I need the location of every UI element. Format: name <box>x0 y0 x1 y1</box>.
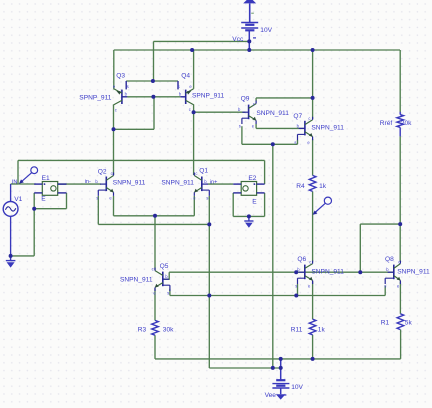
wire Vcc rail y50 <box>114 49 400 51</box>
pin labels Q7 <box>294 116 310 145</box>
wire E2 loop left drop <box>232 193 234 217</box>
svg-text:s: s <box>127 84 129 89</box>
label 5k (R1) <box>405 319 413 326</box>
wire Q1Q2 substrate bus y224 <box>98 223 209 225</box>
label Vcc <box>232 36 244 43</box>
label SPNP_911 (Q3) <box>79 94 111 101</box>
svg-text:Q4: Q4 <box>181 73 190 80</box>
svg-text:Q8: Q8 <box>385 256 394 263</box>
transistor Q9 SNPN_911 <box>242 101 256 124</box>
svg-text:s: s <box>96 196 98 201</box>
svg-text:in+: in+ <box>210 180 218 186</box>
svg-text:SNPN_911: SNPN_911 <box>120 277 153 284</box>
source V1 sine <box>3 202 18 217</box>
svg-text:Q2: Q2 <box>98 168 107 175</box>
svg-text:10V: 10V <box>260 27 272 34</box>
label R3 <box>138 327 147 334</box>
svg-text:Q3: Q3 <box>116 73 125 80</box>
label 30k (R3) <box>163 327 174 334</box>
svg-text:E1: E1 <box>42 175 50 182</box>
wire R11 bottom lead <box>312 335 314 359</box>
label 1k (R4) <box>319 183 327 190</box>
label SPNP_911 (Q4) <box>192 92 224 99</box>
wire IN node to E1 <box>18 183 36 185</box>
label E1 <box>42 175 50 182</box>
transistor Q6 SNPN_911 <box>298 261 313 284</box>
resistor R1 5k <box>397 314 404 330</box>
svg-text:Q1: Q1 <box>199 167 208 174</box>
svg-text:Vcc: Vcc <box>232 36 244 43</box>
wire Q5 emitter to R3 <box>154 288 156 320</box>
pin labels Q8 <box>384 259 400 288</box>
wire IN node to V1 <box>11 183 18 185</box>
svg-text:R1: R1 <box>381 319 390 326</box>
pin labels Q6 <box>295 259 311 288</box>
pin labels Q1 <box>193 171 208 200</box>
label Q2 <box>98 168 107 175</box>
battery Vee 10V <box>272 359 289 395</box>
resistor Rref 20k <box>397 112 404 137</box>
label Q5 <box>160 263 169 270</box>
battery Vcc 10V <box>241 23 258 51</box>
wire E2 sense riser x265 <box>264 160 266 184</box>
wire V1 bottom lead <box>10 216 12 256</box>
label SNPN_911 (Q8) <box>397 269 430 276</box>
wire E1 out- drop x66 <box>66 193 68 209</box>
resistor R4 1k <box>309 175 316 191</box>
wire Q9 emitter to Q7 base y128 <box>256 127 305 129</box>
wire feedback left drop to IN <box>17 160 19 184</box>
wire R3 bottom lead <box>154 335 156 359</box>
ground under E2 <box>244 216 253 227</box>
wire V1 top lead <box>10 184 12 202</box>
label 1k (R11) <box>318 326 326 333</box>
wire Q9 emitter drop <box>255 124 257 128</box>
dependent source E2 (VCVS mirrored) <box>233 182 264 196</box>
label E (E1) <box>41 196 46 203</box>
svg-text:SNPN_911: SNPN_911 <box>311 125 344 132</box>
wire substrate x209 down <box>208 196 210 368</box>
wire vertical x153 Vcc-to-substrate-rail <box>153 41 155 81</box>
wire bias riser x360 <box>359 224 361 272</box>
label Q6 <box>297 256 306 263</box>
wire Q8 emitter to R1 <box>399 281 401 314</box>
transistor Q8 SNPN_911 <box>385 261 400 284</box>
svg-text:SPNP_911: SPNP_911 <box>192 92 224 99</box>
transistor Q5 SNPN_911 <box>155 268 170 291</box>
svg-text:Vee: Vee <box>265 392 277 399</box>
label IN <box>12 180 18 186</box>
wire substrate rail Q3-Q4 y81 <box>126 80 178 82</box>
wire Q3 collector to Q2 collector x113 <box>113 104 115 175</box>
svg-text:Q7: Q7 <box>293 113 302 120</box>
label 10V (Vcc) <box>260 27 272 34</box>
wire E2 loop right drop <box>264 193 266 217</box>
wire Q6 substrate drop <box>297 284 299 296</box>
wire bottom bus y359 <box>155 358 401 360</box>
label Q9 <box>241 96 250 103</box>
svg-text:c: c <box>115 107 117 112</box>
svg-text:c: c <box>189 107 191 112</box>
svg-text:c: c <box>195 171 197 176</box>
wire E1 loop riser x34 <box>33 209 35 256</box>
wire E1 loop bottom y209 <box>34 208 66 210</box>
power Vee down-arrow symbol <box>276 394 286 399</box>
svg-text:IN: IN <box>12 180 18 186</box>
svg-text:Q6: Q6 <box>297 256 306 263</box>
svg-text:s: s <box>167 290 169 295</box>
label in+ net <box>210 180 218 186</box>
svg-text:R4: R4 <box>296 183 305 190</box>
wire in+ net Q1 base to E2 <box>208 183 233 185</box>
label Q1 <box>199 167 208 174</box>
wire Q2 emitter drop <box>113 196 115 216</box>
label R4 <box>296 183 305 190</box>
wire Q9-Q7 substrate y144 <box>242 143 298 145</box>
svg-text:SNPN_911: SNPN_911 <box>113 180 146 187</box>
transistor Q7 SNPN_911 <box>298 117 313 140</box>
pin labels Q5 <box>152 267 170 296</box>
wire Q7 substrate drop <box>297 140 299 144</box>
label E2 <box>248 175 256 182</box>
svg-text:E: E <box>41 196 46 203</box>
transistor Q1 SNPN_911 <box>194 173 209 196</box>
wire Q5 base jog <box>163 272 169 279</box>
wire Q5 substrate drop <box>169 289 171 296</box>
pin labels Q2 <box>95 171 112 200</box>
wire Q4 emitter drop <box>193 50 195 89</box>
wire substrate net x273 down to Vee <box>272 144 274 368</box>
svg-text:c: c <box>253 101 255 106</box>
resistor R3 30k <box>152 320 159 335</box>
svg-text:30k: 30k <box>163 327 174 334</box>
wire Q4 collector to Q1 collector x194 <box>193 104 195 175</box>
svg-text:c: c <box>308 116 310 121</box>
svg-text:s: s <box>206 196 208 201</box>
svg-text:s: s <box>178 84 180 89</box>
wire Q9 collector to x312 y98 <box>256 97 313 99</box>
label SNPN_911 (Q7) <box>311 125 344 132</box>
label Q7 <box>293 113 302 120</box>
wire Q9 substrate drop <box>241 126 243 144</box>
wire Q6 emitter to R11 <box>312 281 314 319</box>
svg-text:s: s <box>294 140 296 145</box>
wire Vcc rail upper y41 <box>154 40 250 42</box>
svg-text:in-: in- <box>85 179 91 185</box>
wire emitter/substrate bus y295 <box>170 295 385 297</box>
label Q3 <box>116 73 125 80</box>
svg-text:R3: R3 <box>138 327 147 334</box>
svg-text:E2: E2 <box>248 175 256 182</box>
wire E2 loop bottom y216 <box>233 215 264 217</box>
svg-text:SNPN_911: SNPN_911 <box>256 110 289 117</box>
ground under V1 <box>6 256 16 268</box>
svg-text:V1: V1 <box>14 196 22 203</box>
wire base bus y272 <box>169 271 394 273</box>
svg-text:10V: 10V <box>291 384 303 391</box>
wire Vcc branch x312 down <box>312 50 314 119</box>
pin labels Q3 <box>113 84 129 112</box>
label V1 <box>14 196 22 203</box>
svg-text:E: E <box>252 199 257 206</box>
transistor Q2 SNPN_911 <box>98 173 113 196</box>
pin labels Q4 <box>178 84 193 112</box>
label SNPN_911 (Q5) <box>120 277 153 284</box>
label 10V (Vee) <box>291 384 303 391</box>
wire R1 bottom riser <box>400 330 402 359</box>
wire Q8 substrate drop <box>384 286 386 296</box>
label Q4 <box>181 73 190 80</box>
svg-text:R11: R11 <box>291 326 303 333</box>
label E (E2) <box>252 199 257 206</box>
wire x400 Rref bottom to Q8 collector <box>399 136 401 261</box>
wire Vee tie y368 <box>209 367 280 369</box>
wire R4 to Q6 collector (output node) <box>312 191 314 261</box>
svg-text:c: c <box>309 259 311 264</box>
svg-text:Q9: Q9 <box>241 96 250 103</box>
svg-text:1k: 1k <box>318 326 326 333</box>
dependent source E1 (VCVS) <box>34 182 66 196</box>
wire bias tie y224 <box>360 223 400 225</box>
wire base rail Q3-Q4 y97 <box>127 96 180 98</box>
wire Q9 collector riser <box>255 98 257 101</box>
label R1 <box>381 319 390 326</box>
svg-text:c: c <box>111 171 113 176</box>
probe IN marker <box>19 167 38 184</box>
svg-text:20k: 20k <box>401 120 412 127</box>
svg-text:SNPN_911: SNPN_911 <box>311 269 344 276</box>
svg-text:5k: 5k <box>405 319 413 326</box>
transistor Q3 SPNP_911 <box>114 81 127 105</box>
resistor R11 1k <box>309 319 316 335</box>
wire Q1 emitter drop <box>193 196 195 216</box>
label Vee <box>265 392 277 399</box>
label SNPN_911 (Q6) <box>311 269 344 276</box>
svg-text:s: s <box>295 284 297 289</box>
svg-text:s: s <box>239 124 241 129</box>
svg-text:SNPN_911: SNPN_911 <box>397 269 430 276</box>
label Rref <box>380 120 393 127</box>
svg-text:1k: 1k <box>319 183 327 190</box>
label SNPN_911 (Q2) <box>113 180 146 187</box>
svg-text:Q5: Q5 <box>160 263 169 270</box>
svg-text:s: s <box>384 284 386 289</box>
wire Q3 emitter drop <box>113 50 115 89</box>
wire right branch x400 Rref top <box>399 50 401 112</box>
wire E1 in- drop <box>33 193 35 209</box>
svg-text:c: c <box>398 259 400 264</box>
svg-text:SPNP_911: SPNP_911 <box>79 94 111 101</box>
wire emitter tie y216 <box>114 215 195 217</box>
wire tail to Q5 collector <box>154 216 156 270</box>
wire in- net E1 to Q2 base <box>58 183 101 185</box>
probe OUT marker <box>313 197 332 215</box>
svg-text:c: c <box>152 267 154 272</box>
label R11 <box>291 326 303 333</box>
label in- net <box>85 179 91 185</box>
transistor Q4 SPNP_911 <box>178 81 194 105</box>
svg-text:SNPN_911: SNPN_911 <box>161 180 194 187</box>
label SNPN_911 (Q9) <box>256 110 289 117</box>
wire V1- to E1 loop y256 <box>11 255 35 257</box>
wire Q2 substrate drop <box>97 196 99 224</box>
label SNPN_911 (Q1) <box>161 180 194 187</box>
power VCC up-arrow symbol <box>243 0 256 22</box>
pin labels Q9 <box>238 101 255 128</box>
wire feedback y160 <box>18 159 265 161</box>
label 20k <box>401 120 412 127</box>
wire Q4 collector to Q9 base y112 <box>194 111 246 113</box>
wire base-rail tap down x154 <box>153 97 155 130</box>
wire diode-connect y129 <box>114 128 155 130</box>
label Q8 <box>385 256 394 263</box>
wire Q7 emitter to R4 <box>312 139 314 175</box>
svg-text:Rréf: Rréf <box>380 120 393 127</box>
